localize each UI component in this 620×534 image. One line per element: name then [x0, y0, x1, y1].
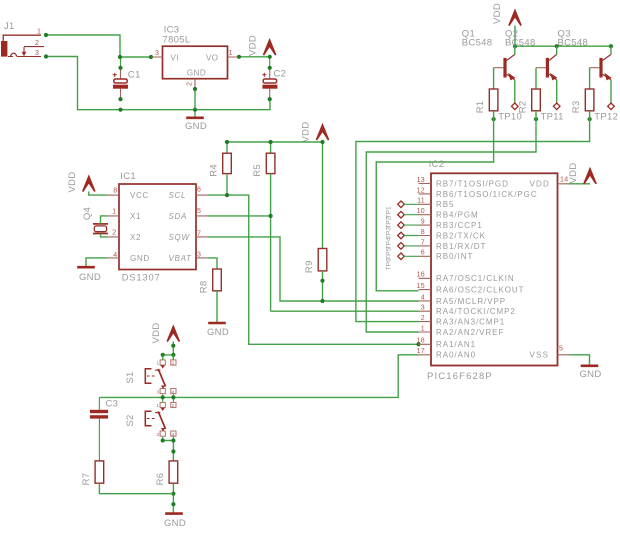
wire VDD rail to Q1 Q2 Q3 collectors	[515, 26, 611, 47]
wire Q3 collector	[610, 46, 612, 54]
svg-text:GND: GND	[164, 518, 186, 529]
svg-text:5: 5	[197, 208, 201, 215]
transistor Q3 BC548	[590, 54, 612, 80]
svg-text:X1: X1	[130, 212, 141, 221]
power symbol VDD at regulator output	[264, 40, 276, 55]
svg-text:1: 1	[229, 50, 233, 57]
resistor R1	[493, 68, 495, 89]
test point TP11	[553, 103, 560, 110]
svg-text:RA1/AN1: RA1/AN1	[436, 340, 476, 349]
wire SCL net R4 to IC2 RA1 pin 18	[208, 174, 419, 345]
ground symbol below R6	[165, 512, 183, 515]
svg-text:12: 12	[417, 187, 425, 194]
svg-text:RB6/T1OSO/1ICK/PGC: RB6/T1OSO/1ICK/PGC	[436, 190, 538, 199]
svg-text:TP2: TP2	[386, 216, 393, 228]
wire SQW net to IC2 MCLR pin 4	[208, 237, 419, 301]
svg-text:1: 1	[421, 325, 425, 332]
svg-text:VDD: VDD	[492, 3, 503, 24]
wire R9 bottom to MCLR net	[322, 271, 324, 301]
svg-text:DS1307: DS1307	[122, 273, 161, 284]
capacitor C2	[262, 57, 277, 99]
svg-text:VDD: VDD	[301, 122, 312, 143]
svg-text:C3: C3	[106, 399, 119, 410]
test points TP1-TP6 at IC2 RB pins	[386, 201, 405, 270]
power symbol VDD above S1	[167, 327, 179, 342]
svg-text:5: 5	[559, 346, 563, 353]
resistor R5	[266, 153, 275, 173]
resistor R3	[589, 68, 591, 89]
svg-text:R8: R8	[199, 281, 210, 294]
svg-text:VI: VI	[171, 53, 179, 62]
power symbol VDD at IC2 pin 14	[569, 183, 590, 185]
svg-text:PIC16F628P: PIC16F628P	[427, 371, 493, 382]
IC1 pin stubs	[108, 195, 208, 258]
svg-text:Q4: Q4	[82, 207, 93, 220]
wire R2 to IC2 RA2 pin 1	[366, 111, 536, 332]
svg-text:GND: GND	[185, 121, 207, 132]
transistor Q2 BC548	[536, 54, 557, 80]
wires TP diamonds to IC2 pins	[404, 204, 418, 256]
svg-text:GND: GND	[130, 254, 150, 263]
svg-text:RA4/TOCKI/CMP2: RA4/TOCKI/CMP2	[436, 307, 516, 316]
svg-text:TP6: TP6	[386, 258, 393, 270]
svg-text:C1: C1	[128, 70, 141, 81]
svg-text:8: 8	[421, 229, 425, 236]
IC2 left pin names	[436, 179, 538, 359]
svg-text:BC548: BC548	[462, 37, 493, 48]
svg-text:VDD: VDD	[568, 163, 579, 184]
svg-text:VSS: VSS	[530, 351, 550, 360]
svg-text:3: 3	[35, 50, 39, 57]
IC3 pin stubs and numbers	[151, 50, 239, 89]
svg-text:7: 7	[421, 239, 425, 246]
svg-text:RB0/INT: RB0/INT	[436, 252, 473, 261]
switch S2	[145, 397, 176, 440]
resistor R2	[535, 68, 537, 89]
svg-text:R9: R9	[304, 260, 315, 273]
svg-text:VDD: VDD	[67, 172, 78, 193]
svg-text:6: 6	[421, 250, 425, 257]
svg-text:7805L: 7805L	[163, 35, 191, 46]
resistor R8	[213, 269, 222, 291]
svg-text:SQW: SQW	[169, 233, 191, 242]
junction dots R9 MCLR	[320, 279, 324, 304]
svg-text:S2: S2	[125, 414, 136, 426]
svg-text:2: 2	[35, 40, 39, 47]
svg-text:R5: R5	[252, 164, 263, 177]
wire SDA net R5 to IC2 RA4 pin 3	[208, 174, 419, 312]
svg-text:RB1/RX/DT: RB1/RX/DT	[436, 242, 486, 251]
svg-text:TP1: TP1	[386, 206, 393, 218]
svg-text:R6: R6	[155, 473, 166, 486]
svg-text:RA7/OSC1/CLKIN: RA7/OSC1/CLKIN	[436, 274, 515, 283]
wire R3 to IC2 RA3 pin 2	[356, 111, 590, 322]
svg-text:4: 4	[172, 432, 175, 437]
junction dot R5 SDA	[269, 214, 273, 218]
svg-text:J1: J1	[4, 21, 15, 32]
svg-text:GND: GND	[579, 369, 601, 380]
svg-text:RA0/AN0: RA0/AN0	[436, 351, 476, 360]
svg-text:VCC: VCC	[130, 191, 149, 200]
IC2 right pin stubs and numbers	[558, 177, 570, 355]
svg-text:SDA: SDA	[169, 212, 188, 221]
IC2 left pin stubs	[419, 184, 432, 355]
wire R1 to IC2 RA6 pin 15	[376, 111, 493, 291]
wire R7 to R6 bottom	[99, 483, 173, 494]
svg-text:2: 2	[172, 403, 175, 408]
wire VDD to S1	[163, 342, 174, 360]
svg-text:TP5: TP5	[386, 248, 393, 260]
wire IC1 X2 to crystal	[101, 234, 108, 237]
capacitor C3	[90, 397, 108, 461]
IC IC1 DS1307 body	[119, 184, 196, 270]
wire S2 to R6	[163, 441, 174, 461]
wire Q1 emitter to test point	[514, 80, 516, 103]
transistor Q1 BC548	[494, 54, 516, 80]
svg-text:VO: VO	[206, 53, 218, 62]
wire Q3 emitter to test point	[610, 80, 612, 103]
svg-text:TP12: TP12	[594, 111, 618, 122]
svg-text:16: 16	[417, 272, 425, 279]
svg-text:RA5/MCLR/VPP: RA5/MCLR/VPP	[436, 297, 506, 306]
junction dots below R6	[171, 492, 175, 507]
svg-text:R3: R3	[571, 101, 582, 114]
svg-text:TP4: TP4	[386, 237, 393, 249]
svg-text:R2: R2	[518, 101, 529, 114]
svg-text:IC2: IC2	[429, 159, 445, 170]
svg-text:RA2/AN2/VREF: RA2/AN2/VREF	[436, 328, 504, 337]
svg-text:10: 10	[417, 208, 425, 215]
svg-text:7: 7	[197, 230, 201, 237]
wire Q1 collector	[514, 46, 516, 54]
svg-text:C2: C2	[274, 69, 287, 80]
svg-text:2: 2	[172, 361, 175, 366]
svg-text:VBAT: VBAT	[169, 254, 193, 263]
svg-text:4: 4	[421, 294, 425, 301]
svg-text:RB3/CCP1: RB3/CCP1	[436, 221, 483, 230]
wire J1 pin3 ground rail to C1 C2 bottoms	[46, 57, 270, 110]
svg-text:VDD: VDD	[248, 35, 259, 56]
J1 pin numbers	[35, 29, 41, 57]
svg-text:2: 2	[187, 82, 194, 86]
svg-text:R4: R4	[209, 164, 220, 177]
svg-text:2: 2	[421, 315, 425, 322]
wire VDD to IC1 VCC pin 8	[89, 192, 108, 196]
svg-text:8: 8	[113, 188, 117, 195]
svg-text:3: 3	[155, 50, 159, 57]
wire Q2 collector	[556, 46, 558, 54]
svg-text:3: 3	[421, 305, 425, 312]
svg-text:RB4/PGM: RB4/PGM	[436, 211, 479, 220]
junction dots VDD rail	[513, 44, 613, 48]
junction dots C1 column	[44, 33, 153, 112]
svg-text:S1: S1	[125, 371, 136, 383]
junction dots S2 bottom	[161, 438, 176, 453]
svg-text:BC548: BC548	[558, 37, 589, 48]
resistor R9	[318, 249, 327, 271]
resistor R6	[169, 461, 178, 483]
svg-text:RB7/T1OSI/PGD: RB7/T1OSI/PGD	[436, 179, 509, 188]
power symbol VDD above R9	[316, 125, 328, 140]
ground symbol below IC1	[77, 266, 95, 269]
svg-text:RA6/OSC2/CLKOUT: RA6/OSC2/CLKOUT	[436, 286, 525, 295]
svg-text:X2: X2	[130, 233, 141, 242]
test point TP10	[512, 103, 519, 110]
power symbol VDD above transistors	[509, 11, 521, 26]
wire switch mid rail to IC2 RA0 pin 17	[99, 355, 418, 398]
IC2 right pin names VDD VSS	[530, 180, 551, 360]
wire J1 pin1 to IC3 VI and C1	[46, 35, 151, 57]
resistor R7	[95, 461, 104, 483]
crystal Q4	[93, 224, 108, 234]
wire IC1 GND pin 4 to ground	[86, 258, 108, 267]
voltage regulator IC3	[163, 46, 228, 78]
wire IC2 VSS pin 5 to ground	[569, 355, 590, 366]
test point TP12	[608, 103, 615, 110]
IC1 pin names	[130, 191, 192, 263]
ground symbol below IC3	[186, 117, 204, 120]
junction dots below R1 R2 R3	[492, 117, 592, 121]
svg-text:IC1: IC1	[120, 171, 136, 182]
S2 pin numbers	[156, 403, 174, 437]
IC2 left pin numbers	[417, 177, 425, 355]
IC3 pin names	[171, 53, 219, 77]
svg-text:R7: R7	[81, 473, 92, 486]
svg-text:GND: GND	[187, 69, 206, 78]
IC1 pin numbers	[112, 187, 201, 259]
svg-text:GND: GND	[207, 327, 229, 338]
svg-text:11: 11	[417, 198, 425, 205]
wire IC3 GND pin to ground	[194, 89, 196, 118]
svg-text:1: 1	[112, 208, 116, 215]
wire VDD rail to R4 R5 tops and R9	[227, 140, 323, 249]
junction dots C2 column	[237, 55, 272, 101]
svg-text:3: 3	[197, 252, 201, 259]
wire R8 to ground	[216, 291, 218, 323]
S1 pin numbers	[156, 361, 174, 395]
wire IC1 VBAT to R8	[208, 258, 218, 269]
svg-text:R1: R1	[475, 101, 486, 114]
svg-text:TP11: TP11	[541, 111, 564, 122]
svg-text:9: 9	[421, 219, 425, 226]
svg-text:13: 13	[417, 177, 425, 184]
power symbol VDD at IC1 VCC	[83, 177, 95, 192]
svg-text:15: 15	[417, 283, 425, 290]
junction dots switch rail	[161, 395, 176, 399]
svg-text:SCL: SCL	[169, 191, 187, 200]
junction dots VDD S1	[161, 344, 176, 357]
svg-text:RB5: RB5	[436, 200, 454, 209]
svg-text:TP3: TP3	[386, 227, 393, 239]
ground symbol at IC2 VSS	[581, 364, 599, 367]
switch S1	[145, 355, 176, 398]
wire R6 to ground	[172, 483, 174, 513]
svg-text:18: 18	[417, 338, 425, 345]
junction dots IC3 ground	[193, 87, 197, 112]
svg-text:RA3/AN3/CMP1: RA3/AN3/CMP1	[436, 318, 505, 327]
junction dot R4 SCL	[225, 193, 229, 197]
wire Q2 emitter to test point	[556, 80, 558, 103]
resistor R4	[223, 153, 232, 173]
capacitor C1	[113, 57, 128, 99]
svg-text:VDD: VDD	[151, 323, 162, 344]
ground symbol below R8	[208, 322, 226, 325]
IC IC2 PIC16F628P body	[431, 173, 558, 365]
svg-text:4: 4	[172, 390, 175, 395]
svg-text:RB2/TX/CK: RB2/TX/CK	[436, 231, 486, 240]
svg-text:GND: GND	[79, 272, 101, 283]
svg-text:1: 1	[37, 29, 41, 36]
svg-text:2: 2	[112, 229, 116, 236]
svg-text:VDD: VDD	[530, 180, 551, 189]
junction dots VDD rail R4 R5	[225, 140, 325, 144]
svg-text:BC548: BC548	[505, 37, 536, 48]
svg-text:6: 6	[197, 187, 201, 194]
wire IC1 X1 to crystal	[101, 216, 108, 224]
wire IC3 VO to VDD and C2	[239, 56, 270, 58]
connector J1	[1, 35, 44, 56]
svg-text:4: 4	[113, 252, 117, 259]
